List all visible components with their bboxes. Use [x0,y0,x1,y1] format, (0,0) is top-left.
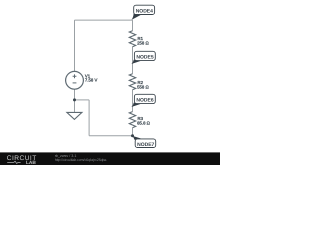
node NODE7 [132,136,156,148]
resistor R3 [129,112,135,128]
svg-text:NODE6: NODE6 [136,97,153,103]
svg-text:NODE4: NODE4 [136,8,153,14]
voltage source V1 [66,71,84,89]
junction at NODE7 [131,134,134,137]
wire bottom horizontal [89,135,132,137]
resistor R1 [129,31,135,47]
svg-text:558 Ω: 558 Ω [137,85,149,90]
junction at V1 bottom [73,98,76,101]
wire R3 to bottom [132,128,134,136]
node NODE4 [132,5,155,20]
wire junction to right [75,99,90,101]
resistor R2 [129,74,135,90]
wire bottom-left vertical [88,100,90,136]
node NODE6 [131,94,155,107]
svg-text:258 Ω: 258 Ω [137,41,149,46]
wire V1 bottom to ground [74,89,76,112]
svg-text:http://circuitlab.com/c6qkzjrc: http://circuitlab.com/c6qkzjrc25qba [55,158,107,162]
node NODE5 [131,51,155,64]
svg-text:7.58 V: 7.58 V [85,78,98,83]
wire right top lead [132,20,134,31]
ground [67,112,82,119]
wire top horizontal [75,19,133,21]
wire R2 to R3 [132,90,134,112]
svg-text:85.8 Ω: 85.8 Ω [137,121,151,126]
svg-text:NODE7: NODE7 [137,142,154,148]
wire R1 to R2 [132,47,134,74]
svg-text:LAB: LAB [26,160,36,165]
svg-text:NODE5: NODE5 [136,54,153,60]
wire left vertical to V1 [74,20,76,71]
